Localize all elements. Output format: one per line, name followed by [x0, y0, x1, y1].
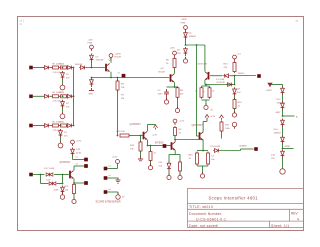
pad net intensity — [163, 144, 166, 147]
svg-text:+15V: +15V — [210, 116, 216, 118]
Q1 emitter wire — [110, 72, 112, 78]
transistor Q3 — [171, 74, 175, 82]
svg-text:R19: R19 — [130, 145, 135, 147]
svg-text:o1: o1 — [109, 166, 112, 168]
Q8 collector wire — [202, 122, 204, 133]
svg-text:D5: D5 — [189, 33, 193, 35]
svg-text:Q1: Q1 — [109, 59, 113, 62]
wire R6 to Q4 node — [117, 91, 119, 136]
svg-text:+15V: +15V — [170, 48, 176, 50]
svg-text:SCOPE INTENSIFIER: SCOPE INTENSIFIER — [96, 201, 121, 204]
value R16 — [189, 158, 192, 160]
Q6 collector wire — [73, 166, 75, 170]
label D13 — [276, 112, 282, 114]
label R18 — [117, 131, 126, 133]
resistor R2b — [61, 95, 67, 98]
Q8 base wire — [197, 135, 199, 137]
jog to R8 — [175, 86, 178, 88]
wire branch 1 to gnd — [62, 80, 64, 83]
wire D20 gnd — [62, 194, 64, 195]
wire D15 to node — [282, 144, 284, 149]
svg-text:+250V: +250V — [115, 54, 122, 56]
value D9 — [237, 92, 241, 94]
label P4 — [179, 121, 185, 123]
transistor Q1 — [106, 64, 110, 72]
Q6 emitter wire — [73, 179, 75, 183]
stub X6-1 up — [117, 164, 119, 169]
value D14 — [274, 133, 282, 135]
pad video out — [257, 74, 260, 77]
diode D1b — [66, 66, 72, 70]
Q5 base diode to column — [230, 75, 235, 77]
junction row 1 bus — [73, 67, 75, 69]
wire X6-2 — [107, 177, 117, 179]
ground circle branch 1 — [60, 83, 65, 90]
label P3 — [170, 48, 176, 50]
label net1 — [121, 95, 125, 97]
junction right column upper — [282, 115, 284, 117]
label Q8 — [192, 124, 204, 127]
transistor Q4 — [144, 132, 148, 140]
svg-text:REV:: REV: — [291, 212, 298, 216]
ground bar GND1 — [89, 88, 94, 91]
long wire to Q8 base — [196, 45, 198, 136]
value R17 — [211, 159, 215, 161]
diode D5 — [184, 31, 188, 40]
label VCC Q1b — [115, 57, 122, 59]
label X6-3 — [122, 197, 125, 199]
junction branch 3 — [60, 125, 62, 127]
svg-text:Document Number:: Document Number: — [189, 212, 223, 216]
svg-text:D9: D9 — [237, 89, 241, 91]
wire to C2 — [167, 86, 175, 88]
supply circle X6 — [116, 160, 120, 164]
svg-text:+15V: +15V — [179, 121, 185, 123]
svg-text:D2: D2 — [64, 132, 68, 134]
junction row 3 bus — [73, 125, 75, 127]
resistor R13 — [233, 61, 236, 73]
svg-text:4148: 4148 — [54, 190, 60, 192]
Q4 collector jog — [148, 124, 156, 126]
wire row 2 a — [50, 95, 53, 97]
chain top stub — [282, 85, 284, 88]
svg-text:GRID: GRID — [285, 146, 291, 148]
pad X5-1 — [84, 158, 87, 161]
value R9 — [179, 133, 182, 135]
label gnd divider — [211, 110, 214, 112]
diode D2a — [43, 94, 49, 98]
svg-text:1k: 1k — [189, 158, 192, 160]
junction top rail Q8 branch — [196, 44, 198, 46]
resistor R3b — [61, 124, 67, 127]
label D11 — [159, 162, 164, 164]
svg-text:a: a — [204, 91, 206, 93]
svg-text:Scope Intensifier 4601: Scope Intensifier 4601 — [209, 196, 259, 201]
wire to R20 — [150, 146, 152, 152]
wire R20 gnd — [150, 161, 152, 165]
label R22 — [65, 186, 70, 188]
pair bottom wire — [197, 165, 208, 167]
date label — [189, 224, 219, 228]
label R1a — [53, 63, 62, 65]
junction Q4 node — [117, 135, 119, 137]
svg-text:5v6: 5v6 — [64, 136, 68, 138]
ground circle divider — [204, 103, 208, 109]
transistor Q5 — [205, 72, 209, 80]
value net1 — [121, 98, 124, 100]
label D5 — [189, 33, 193, 35]
junction R19 top — [140, 135, 142, 137]
junction rail at Q1 — [110, 77, 112, 79]
wire R21 gnd — [179, 171, 181, 175]
ground circle R22 — [72, 197, 76, 203]
supply circle P4 — [173, 119, 177, 125]
value Q3 — [159, 72, 166, 74]
label R19 — [130, 145, 135, 147]
label video out — [238, 73, 245, 75]
wire node to rail — [234, 76, 236, 85]
label D10 — [211, 146, 221, 148]
svg-text:D17 4148: D17 4148 — [45, 168, 55, 170]
supply circle Q1 collector — [109, 54, 113, 60]
svg-text:470: 470 — [224, 67, 228, 69]
svg-text:D18: D18 — [47, 179, 52, 181]
value R15 — [225, 128, 231, 130]
wire branch 2 to gnd — [62, 108, 64, 111]
Q8 collector jog — [203, 121, 207, 123]
diode D3b — [66, 124, 72, 128]
label D16 — [271, 155, 276, 157]
label Z3 — [64, 132, 68, 134]
label P2b — [181, 23, 186, 25]
value C2 — [158, 94, 164, 96]
svg-text:D11: D11 — [159, 162, 164, 164]
label pad rail — [118, 73, 122, 75]
title block row line 2 — [188, 208, 304, 210]
svg-text:4: 4 — [297, 217, 299, 221]
resistor R16 — [196, 152, 199, 166]
label Q5 — [197, 64, 208, 66]
connector pad X6-1 — [104, 167, 107, 170]
svg-text:rA: rA — [20, 23, 23, 26]
diode D1a — [43, 66, 49, 70]
label Q1 — [109, 59, 113, 62]
junction rail column — [234, 84, 236, 86]
annotation text — [96, 201, 121, 204]
label R9 — [179, 129, 183, 131]
label R2a — [53, 92, 62, 94]
svg-text:1N4148: 1N4148 — [75, 64, 83, 66]
wire D5 to junction — [185, 40, 187, 46]
label VCC Q1 — [115, 54, 122, 56]
supply drop to Q5 — [204, 45, 206, 71]
label R20 — [154, 153, 157, 155]
label R8 — [180, 90, 184, 92]
resistor R10 — [200, 86, 203, 99]
label R3b — [60, 121, 66, 123]
resistor R2a — [53, 95, 59, 98]
junction Q3 emitter — [174, 86, 176, 88]
svg-text:75V: 75V — [271, 158, 275, 160]
ground circle R21 — [178, 173, 182, 179]
wire row 2 b — [59, 95, 61, 97]
value R11 — [212, 91, 215, 93]
ground circle R20 — [148, 163, 152, 169]
wire R9 to rail — [174, 136, 176, 140]
connector pad X1 — [29, 66, 32, 69]
wire X4 to dual diode — [41, 174, 45, 176]
wire R19 gnd — [140, 152, 142, 158]
svg-text:R7: R7 — [121, 95, 125, 97]
svg-text:1M: 1M — [121, 98, 124, 100]
loop right — [62, 175, 64, 184]
svg-text:D14: D14 — [274, 129, 279, 131]
wire pad to Q7 — [166, 145, 170, 147]
pad X5-2 — [84, 164, 87, 167]
resistor R18 — [120, 134, 129, 137]
svg-text:R14: R14 — [238, 102, 243, 104]
wire zener to row1 — [91, 62, 93, 68]
ground circle column — [232, 111, 236, 117]
svg-text:100k: 100k — [60, 92, 66, 94]
label R15 — [225, 125, 230, 127]
title block row line 3 — [188, 220, 304, 222]
junction rail at R6 — [117, 77, 119, 79]
diode D14 — [281, 119, 285, 128]
label out2 — [240, 145, 248, 148]
drop to divider pair — [205, 85, 207, 87]
diode D15 — [281, 136, 285, 145]
label Z2 — [66, 103, 70, 105]
svg-text:o3: o3 — [109, 189, 112, 191]
Q6 collector to pad — [74, 165, 84, 167]
svg-text:BC547: BC547 — [159, 72, 166, 74]
label VCC Q4 — [152, 134, 158, 136]
value D6 — [177, 53, 181, 55]
wire D12-D13 — [282, 95, 284, 103]
label R16 — [189, 155, 194, 157]
value R6 — [121, 87, 125, 89]
label X6-1 — [112, 157, 118, 159]
value R1a — [53, 72, 62, 74]
value R13 — [224, 67, 228, 69]
resistor R20 — [149, 150, 152, 162]
wire to supply junction — [86, 67, 105, 69]
svg-text:Q6 BC547: Q6 BC547 — [60, 162, 71, 164]
svg-text:Date: not saved!: Date: not saved! — [189, 224, 219, 228]
label X5-2 — [76, 164, 79, 166]
label R5 — [166, 60, 170, 62]
label P1a — [88, 40, 94, 42]
wire row 3 a — [50, 125, 53, 127]
wire D11 gnd — [168, 171, 170, 176]
label C2 — [158, 90, 162, 92]
connector pad X6-2 — [104, 176, 107, 179]
resistor R6 — [116, 80, 119, 92]
wire from pad X1 — [33, 67, 44, 69]
junction base Q1 — [91, 67, 93, 69]
zener diode D19 — [71, 148, 75, 157]
svg-text:C2: C2 — [158, 90, 162, 92]
ground circle Q3 — [175, 106, 179, 112]
svg-text:R22: R22 — [65, 186, 70, 188]
zener diode D9 — [233, 87, 237, 97]
loop bottom right — [57, 183, 63, 185]
Q8 collector up — [206, 119, 208, 122]
value R2a — [53, 101, 62, 103]
junction branch 2 — [62, 95, 64, 97]
label D18 — [47, 179, 52, 181]
junction right column — [282, 148, 284, 150]
svg-text:Q5 BC547: Q5 BC547 — [197, 64, 208, 66]
supply circle P1 — [90, 45, 94, 51]
document number value — [196, 218, 226, 222]
wire R14 to gnd — [234, 109, 236, 113]
Q4 emitter wire — [147, 140, 149, 146]
value D16 — [271, 158, 275, 160]
junction R9 rail — [174, 139, 176, 141]
label Q6 — [60, 162, 71, 164]
svg-text:100k: 100k — [60, 63, 66, 65]
svg-text:+15V: +15V — [88, 40, 94, 42]
wire row 1 b — [59, 67, 61, 69]
junction rail at zener — [91, 77, 93, 79]
svg-text:R13: R13 — [224, 64, 229, 66]
corner note top-left — [20, 20, 25, 27]
svg-text:4k7: 4k7 — [180, 94, 184, 96]
value P1b — [96, 60, 104, 62]
svg-text:VIDEO: VIDEO — [238, 73, 245, 75]
junction video node — [234, 75, 236, 77]
svg-text:BC547: BC547 — [115, 57, 122, 59]
svg-text:D7 4148: D7 4148 — [216, 79, 225, 81]
loop left — [40, 175, 42, 184]
label D8 — [217, 82, 226, 84]
label P2a — [181, 19, 188, 21]
capacitor C2 — [164, 89, 169, 97]
svg-text:D2: D2 — [96, 57, 100, 59]
value Z2 — [66, 106, 70, 108]
label VCC Q8 — [210, 116, 216, 118]
svg-text:TITLE: sb01X: TITLE: sb01X — [189, 205, 214, 209]
pair top wire — [197, 150, 208, 152]
connector pad X2 — [29, 95, 32, 98]
wire D16 gnd — [282, 158, 284, 169]
zener diode D2 — [90, 54, 94, 63]
junction X4 b — [62, 174, 64, 176]
wire Q4 emitter out — [148, 145, 163, 147]
net label intensity — [155, 143, 164, 145]
divider pair top — [202, 85, 210, 87]
title row text — [189, 205, 214, 209]
svg-text:D10 4148: D10 4148 — [211, 146, 221, 148]
ground circle D20 — [60, 193, 64, 200]
pad on rail — [122, 74, 125, 77]
label D9 — [237, 89, 241, 91]
svg-text:100k: 100k — [225, 128, 231, 130]
net label X6-1 — [109, 166, 112, 168]
svg-text:R15: R15 — [225, 125, 230, 127]
label P1b — [96, 57, 100, 59]
svg-text:PWR: PWR — [88, 43, 93, 45]
svg-text:10k: 10k — [121, 87, 125, 89]
label D7 — [216, 79, 225, 81]
zener diode D6 — [184, 47, 188, 56]
wire D14-D15 — [282, 127, 284, 137]
junction Q4 emitter — [147, 145, 149, 147]
Q8 emitter drop — [202, 140, 204, 151]
label node right — [285, 146, 291, 148]
connector pad X3 — [29, 124, 32, 127]
svg-text:4007: 4007 — [276, 112, 282, 114]
connector pad X6-3 — [104, 190, 107, 193]
label Q3 — [161, 68, 165, 70]
wire row 1 a — [50, 67, 53, 69]
svg-text:0V: 0V — [211, 110, 214, 112]
diode D2b — [66, 94, 72, 98]
Q3 collector wire — [174, 69, 176, 74]
svg-text:D6: D6 — [177, 50, 181, 52]
wire node stub right — [283, 148, 294, 150]
Q5 emitter jog — [205, 84, 206, 86]
Q7 emitter split — [169, 154, 180, 156]
mid rail — [175, 139, 203, 141]
zener diode D20 — [61, 186, 65, 195]
svg-text:1k: 1k — [166, 63, 169, 65]
svg-text:100n: 100n — [158, 94, 164, 96]
connector pad X4 — [29, 173, 32, 176]
svg-text:A: A — [296, 116, 298, 119]
zener diode Z3 — [59, 129, 63, 138]
dual diode D18 — [49, 182, 56, 185]
junction loop bottom — [62, 183, 64, 185]
label D6 — [177, 50, 181, 52]
wire D13-D14 — [282, 110, 284, 117]
diode D10 — [213, 149, 219, 153]
zener diode Z2 — [61, 100, 65, 109]
ground circle supply — [183, 57, 187, 63]
svg-text:C1: C1 — [118, 73, 122, 75]
zener diode D11 — [167, 162, 171, 172]
resistor R9 — [174, 126, 177, 137]
wire R15 down — [221, 132, 223, 139]
svg-text:D2: D2 — [66, 74, 70, 76]
value D5 — [189, 36, 197, 38]
label R13 — [224, 64, 229, 66]
Q4 collector wire — [147, 125, 149, 132]
net label X6-3 — [109, 189, 112, 191]
svg-text:Q3: Q3 — [161, 68, 165, 70]
svg-text:a1: a1 — [296, 20, 299, 23]
wire branch 3 to gnd — [60, 138, 62, 141]
title block row line 1 — [188, 203, 304, 205]
wire video out — [235, 75, 257, 77]
resistor R19 — [139, 141, 142, 153]
svg-text:5v6: 5v6 — [66, 78, 70, 80]
supply circle P3 — [173, 51, 177, 57]
resistor R22 — [73, 183, 76, 195]
label Z1 — [66, 74, 70, 76]
svg-text:o1: o1 — [76, 157, 79, 159]
svg-text:R5: R5 — [166, 60, 170, 62]
svg-text:10n: 10n — [211, 159, 215, 161]
svg-text:Q4 BC547: Q4 BC547 — [130, 123, 142, 126]
svg-text:1k: 1k — [238, 106, 241, 108]
junction row 2 bus — [73, 95, 75, 97]
label P8 — [76, 141, 82, 143]
wire rail to R6 — [117, 78, 119, 81]
title block box — [188, 189, 304, 228]
